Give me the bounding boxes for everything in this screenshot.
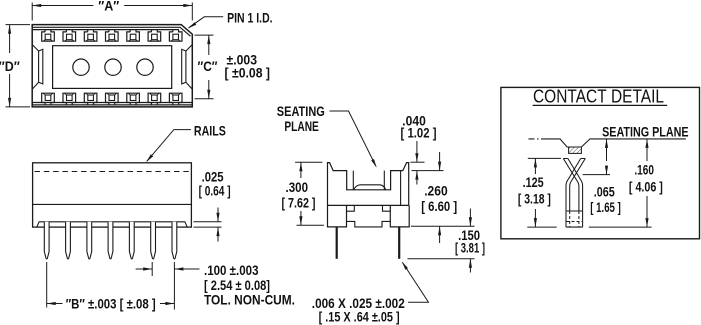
dimension B: dimension line with arrows — [47, 303, 63, 305]
dimension .040: arrows — [416, 141, 418, 162]
dimension .065: reference line — [583, 174, 610, 176]
top view: inner top edge line — [32, 27, 190, 36]
top view: connector body outline — [32, 25, 192, 107]
svg-text:.125: .125 — [523, 175, 544, 190]
svg-text:[ 2.54 ± 0.08]: [ 2.54 ± 0.08] — [204, 278, 270, 293]
front view: lower right block — [390, 205, 409, 227]
top view: center cavity rectangle — [53, 46, 172, 89]
svg-text:.025: .025 — [202, 170, 224, 185]
dimension .150: extension lines — [411, 225, 475, 227]
svg-text:[ 7.62 ]: [ 7.62 ] — [282, 196, 316, 211]
svg-text:SEATING: SEATING — [277, 103, 325, 119]
dimension .065: arrows — [606, 139, 608, 161]
contact detail: contact spring crossing arms — [563, 158, 585, 160]
top view: inner bottom edge lines — [32, 104, 192, 106]
svg-text:CONTACT DETAIL: CONTACT DETAIL — [533, 86, 664, 107]
dimension A: extension lines — [31, 3, 33, 21]
side view: 7 through-hole pins — [44, 222, 177, 259]
svg-text:[ 6.60 ]: [ 6.60 ] — [421, 199, 457, 214]
dimension C: dimension line with arrows — [208, 35, 210, 55]
svg-text:″C″: ″C″ — [198, 58, 218, 74]
side view: rails dashed line — [35, 171, 190, 173]
dimension .100: ticks and arrows — [151, 262, 153, 276]
pin section note leader with arrow — [403, 263, 429, 303]
rails leader line with arrow — [147, 130, 191, 162]
contact detail: seating plane line with dip — [529, 138, 544, 140]
svg-text:.160: .160 — [634, 162, 654, 177]
front view: socket opening inner walls — [353, 171, 384, 190]
svg-text:.100 ±.003: .100 ±.003 — [204, 263, 259, 278]
front view: left pin — [336, 227, 338, 259]
contact detail: shank cross line — [566, 210, 583, 212]
svg-text:[ .15 X .64 ±.05 ]: [ .15 X .64 ±.05 ] — [319, 309, 400, 324]
front view: hidden slot edge line — [400, 171, 402, 206]
dimension .025: arrows — [217, 208, 219, 222]
seating plane leader with arrow — [330, 111, 376, 166]
svg-text:SEATING PLANE: SEATING PLANE — [602, 123, 689, 139]
svg-text:″B″ ±.003 [ ±.08 ]: ″B″ ±.003 [ ±.08 ] — [66, 297, 156, 312]
dimension .025: extension lines — [194, 221, 222, 223]
dimension .260: arrows — [439, 152, 441, 171]
contact detail: contact tab (hatched) in dip — [569, 147, 582, 153]
svg-text:PIN 1 I.D.: PIN 1 I.D. — [227, 9, 273, 25]
dimension .150: arrows — [469, 209, 471, 227]
side view: mid horizontal line — [33, 203, 192, 205]
front view: center bottom step outline — [347, 221, 391, 227]
dimension .125: extension lines — [528, 157, 561, 159]
front view: retention notch right — [383, 205, 391, 211]
dimension C: extension lines — [195, 34, 214, 36]
dimension .160: extension line — [589, 226, 652, 228]
dimension .040: extension line — [411, 161, 425, 163]
svg-text:[ 1.65 ]: [ 1.65 ] — [590, 200, 621, 215]
front view: right pin — [398, 227, 400, 259]
dimension D: extension lines — [6, 24, 31, 26]
svg-text:[ 4.06 ]: [ 4.06 ] — [629, 180, 663, 195]
svg-text:PLANE: PLANE — [284, 118, 319, 134]
contact detail box border — [501, 87, 700, 238]
top view: polarization circle 2 — [105, 59, 121, 75]
svg-text:[ ±0.08 ]: [ ±0.08 ] — [225, 66, 271, 81]
side view: body outline — [33, 163, 192, 227]
front view: retention notch left — [347, 205, 355, 211]
front view: lower left block — [328, 205, 347, 227]
top view: polarization circle 1 — [73, 59, 89, 75]
top view: bottom row of 7 contact slots — [42, 93, 182, 104]
dimension B: extension line left — [46, 262, 48, 308]
dimension D: dimension line with arrows — [9, 25, 11, 53]
dimension .160: arrows — [646, 139, 648, 161]
svg-text:RAILS: RAILS — [194, 123, 226, 139]
svg-text:″A″: ″A″ — [98, 0, 119, 14]
top view: polarization circle 3 — [137, 59, 153, 75]
svg-text:TOL. NON-CUM.: TOL. NON-CUM. — [204, 293, 295, 308]
top view: top row of 7 contact slots — [42, 30, 182, 41]
svg-text:.065: .065 — [594, 184, 615, 199]
dimension .125: arrows — [534, 158, 536, 174]
svg-text:[ 3.18 ]: [ 3.18 ] — [518, 191, 551, 206]
svg-text:.300: .300 — [286, 180, 309, 195]
dimension A: dimension line with arrows — [32, 5, 93, 7]
dimension .300: extension lines — [295, 161, 322, 163]
svg-text:.260: .260 — [424, 183, 448, 198]
svg-text:[ 1.02 ]: [ 1.02 ] — [401, 126, 437, 141]
contact detail: shank hidden lines — [570, 211, 579, 227]
pin 1 I.D. leader line with arrow — [189, 17, 224, 28]
top view: right side pocket — [182, 49, 186, 84]
top view: left side pocket — [39, 49, 43, 84]
front view: housing upper outline with ears — [328, 163, 409, 206]
front view: contact dome inside opening — [354, 185, 386, 190]
svg-text:[ 3.81 ]: [ 3.81 ] — [455, 240, 485, 255]
dimension .300: dimension line with arrows — [300, 162, 302, 178]
contact detail: shank bottom edge — [566, 226, 583, 228]
svg-text:″D″: ″D″ — [0, 58, 20, 74]
side view: bottom standoff recess — [37, 222, 187, 227]
front view: body mid line A — [328, 204, 409, 206]
svg-text:[ 0.64 ]: [ 0.64 ] — [199, 184, 231, 199]
